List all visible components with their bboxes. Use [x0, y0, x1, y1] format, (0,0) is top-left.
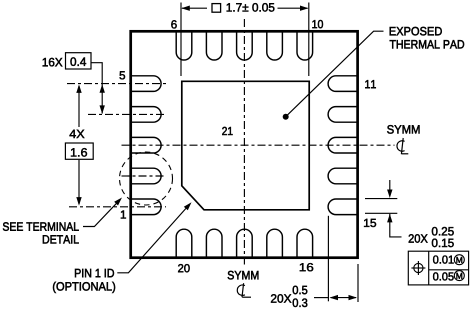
- 4X dimension lower arrow: [78, 160, 80, 204]
- label EXPOSED THERMAL PAD: [390, 27, 442, 35]
- pin 14 terminal (right): [328, 168, 358, 184]
- terminal detail dashed circle: [120, 152, 173, 205]
- leader with dot into thermal pad: [286, 31, 384, 117]
- pin 9 terminal (top): [267, 31, 283, 60]
- label SYMM (bottom): [228, 271, 259, 279]
- boxed basic dimension 1.6: [65, 143, 93, 159]
- label pin 10: [312, 20, 323, 28]
- pin 18 terminal (bottom): [237, 229, 253, 258]
- leader to pin 1 chamfer: [117, 205, 189, 273]
- tolerance 0.01 M: [433, 255, 453, 263]
- up arrow and elbow leader: [390, 214, 402, 237]
- label pin 20: [178, 264, 189, 272]
- pin 16 terminal (bottom): [297, 229, 313, 258]
- terminal width extension line (pin 15 bottom): [365, 212, 397, 214]
- pitch dimension down arrow: [100, 105, 105, 114]
- leader from 0.4 box to pitch dimension: [91, 63, 102, 114]
- pin 5 terminal (left): [131, 76, 161, 92]
- label 16X: [43, 58, 63, 66]
- feature control frame box: [408, 251, 468, 285]
- square symbol: [212, 4, 221, 13]
- pin 7 terminal (top): [206, 31, 222, 60]
- pin 12 terminal (right): [328, 107, 357, 123]
- pin 19 terminal (bottom): [206, 229, 222, 258]
- pin 20 terminal (bottom): [176, 229, 192, 258]
- exposed thermal pad (pad 21) with pin-1 chamfer: [182, 81, 309, 210]
- terminal length extension line (pin tip): [327, 216, 329, 301]
- pin 17 terminal (bottom): [267, 229, 283, 258]
- label pin 15: [364, 219, 376, 227]
- label pin 21: [222, 127, 232, 135]
- dimension line right arrow: [278, 7, 308, 9]
- leader stub from 0.5/0.3 text: [314, 297, 328, 299]
- pin 4 terminal (left): [131, 107, 161, 123]
- label pin 6: [171, 20, 176, 28]
- terminal width extension line (pin 15 top): [365, 198, 397, 200]
- down arrow to pin 15 top: [389, 180, 391, 192]
- pin 5 centerline: [67, 83, 166, 85]
- centerline symbol (bottom): [237, 283, 251, 297]
- 4X dimension upper arrow: [78, 86, 80, 127]
- pin 13 terminal (right): [328, 137, 358, 153]
- pin 8 terminal (top): [237, 31, 253, 60]
- tolerance 0.05 M: [433, 272, 453, 280]
- pitch dimension up arrow: [100, 84, 105, 93]
- leader to terminal detail circle: [83, 200, 120, 226]
- dimension text 1.7 +- 0.05: [227, 3, 275, 11]
- label SYMM (right): [387, 125, 419, 133]
- terminal length dimension double arrow: [331, 297, 357, 299]
- pin 11 terminal (right): [328, 76, 357, 92]
- label 20X 0.25/0.15: [409, 234, 428, 242]
- package outline: [131, 31, 358, 257]
- dimension line left arrow: [182, 7, 207, 9]
- label pin 16: [300, 263, 313, 271]
- horizontal symmetry centerline: [122, 144, 395, 146]
- dimension extension line (pad right edge): [308, 3, 310, 77]
- pin 4 centerline: [88, 113, 166, 115]
- vertical symmetry centerline: [243, 19, 245, 265]
- pin 2 centerline: [122, 175, 167, 177]
- pin 15 terminal (right): [328, 199, 358, 215]
- pin 1 terminal (left): [131, 199, 161, 215]
- pin 1 centerline: [69, 206, 166, 208]
- centerline symbol (right): [397, 138, 408, 154]
- label SEE TERMINAL DETAIL: [3, 222, 79, 230]
- label pin 5: [120, 71, 125, 79]
- terminal length extension line (package edge): [357, 264, 359, 302]
- label PIN 1 ID (OPTIONAL): [75, 269, 114, 277]
- label 4X: [69, 130, 84, 138]
- pin 10 terminal (top): [297, 31, 313, 60]
- boxed basic dimension 0.4: [66, 53, 92, 69]
- true position symbol: [411, 261, 425, 275]
- label 20X 0.5/0.3: [271, 294, 291, 302]
- pin 3 terminal (left): [131, 137, 161, 153]
- pin 2 terminal (left): [131, 168, 161, 184]
- label pin 11: [365, 80, 376, 88]
- dimension extension line (pad left edge): [180, 3, 182, 77]
- pin 6 terminal (top): [176, 31, 192, 60]
- label pin 1: [121, 211, 126, 219]
